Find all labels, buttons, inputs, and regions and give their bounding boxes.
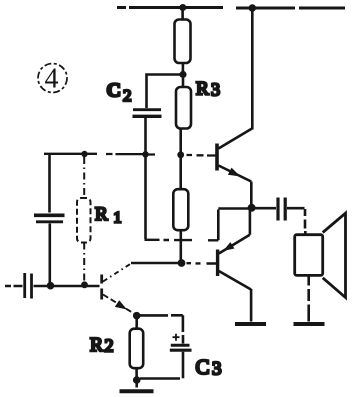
wire: R2 bottom lead [135, 368, 138, 377]
wire: left capacitor to input line [48, 224, 51, 286]
wire: left vertical from mid line to input cap top [48, 154, 51, 213]
transistor Q3 emitter [103, 295, 136, 315]
transistor Q3 collector [103, 264, 131, 282]
resistor (middle, unlabeled) [173, 189, 188, 230]
node: divider tap junction [179, 71, 186, 78]
wire: Q1 base stub (dashed) [197, 154, 216, 156]
wire: mid horizontal feedback line [44, 154, 192, 155]
transistor Q2 base bar [216, 250, 219, 277]
capacitor C2 [133, 108, 161, 111]
transistor Q1 emitter [219, 166, 252, 182]
resistor R2 [130, 329, 144, 369]
node: Q3 emitter junction [133, 312, 141, 320]
svg-text:R: R [196, 79, 209, 100]
node: R2 / C3 bottom junction [133, 376, 141, 384]
svg-text:1: 1 [114, 210, 122, 227]
capacitor (left coupling, large) [34, 214, 65, 218]
ground: R2 / C3 [120, 389, 154, 393]
wire: C3 bottom lead to R2 junction [140, 352, 183, 379]
wire: bootstrap line y240 from C2 lead to right [145, 239, 219, 242]
junction: rail / divider chain [179, 4, 186, 11]
node: mid line / C2 lead junction [142, 151, 148, 157]
node: mid line / R1 junction [81, 151, 87, 157]
capacitor C3 (electrolytic, + mark) [171, 344, 190, 347]
frame label: circled figure number 4 [38, 64, 67, 93]
junction: input line / left cap branch [47, 282, 55, 290]
resistor R1 (dashed outline) [77, 198, 91, 243]
wire: Q3 emitter node to R2 [135, 316, 138, 329]
capacitor (output coupling) [276, 198, 279, 221]
resistor (upper, unlabeled) [175, 20, 191, 64]
node: lower divider junction [178, 259, 186, 267]
speaker: driver box [295, 235, 323, 276]
svg-text:C: C [196, 355, 210, 379]
wire: rail to upper resistor [181, 8, 184, 20]
wire: Q1 emitter down to output node [250, 182, 253, 206]
resistor (middle, unlabeled) lead from mid junction [179, 155, 182, 189]
ground: speaker [294, 322, 325, 326]
svg-text:2: 2 [123, 86, 132, 105]
node: mid line / divider junction [177, 151, 184, 158]
wire: Q2 base stub (dashed) [196, 262, 217, 265]
svg-text:4: 4 [45, 64, 59, 95]
wire: middle resistor bottom lead [180, 230, 183, 263]
transistor Q3 base bar [100, 275, 103, 300]
wire: Q3 collector to lower divider node (dash-dot) [131, 262, 191, 265]
svg-text:R: R [95, 204, 108, 225]
wire: junction to ground [135, 380, 138, 388]
transistor Q1 base bar [215, 144, 219, 171]
capacitor (input coupling) [23, 273, 26, 298]
transistor Q2 collector [219, 271, 251, 322]
wire: node to C2 top [147, 75, 181, 109]
speaker: horn [323, 213, 346, 297]
wire: output capacitor to speaker [287, 208, 305, 235]
svg-text:C: C [107, 80, 121, 102]
wire: C2 bottom lead down [144, 117, 147, 239]
wire: input line [5, 285, 100, 287]
wire: upper resistor to node [182, 63, 185, 74]
svg-text:3: 3 [212, 359, 222, 380]
node: output node (Q1 emitter / Q2 emitter / coupling cap) [248, 204, 256, 212]
ground: Q2 collector [235, 322, 266, 326]
wire: emitter node across to C3 top [139, 315, 183, 343]
wire: +V supply rail [117, 6, 345, 10]
wire: output node to output capacitor [254, 207, 276, 210]
svg-text:3: 3 [211, 80, 220, 100]
wire: node to R3 [182, 78, 185, 87]
wire: bootstrap riser to output node [218, 209, 248, 241]
wire: speaker return to ground [307, 276, 310, 322]
resistor R3 [176, 87, 191, 129]
transistor Q2 emitter (PNP, arrow toward base) [219, 208, 250, 254]
junction: rail / Q1 collector [249, 4, 257, 12]
wire: R1 upper lead (dash-dot) [83, 157, 85, 198]
svg-text:2: 2 [105, 336, 114, 356]
junction: input line / R1 branch [81, 281, 88, 288]
transistor Q1 collector [219, 8, 253, 149]
wire: R3 bottom to mid junction [179, 129, 182, 155]
svg-text:R: R [90, 335, 103, 356]
wire: R1 lower lead (dash-dot) [83, 243, 85, 285]
